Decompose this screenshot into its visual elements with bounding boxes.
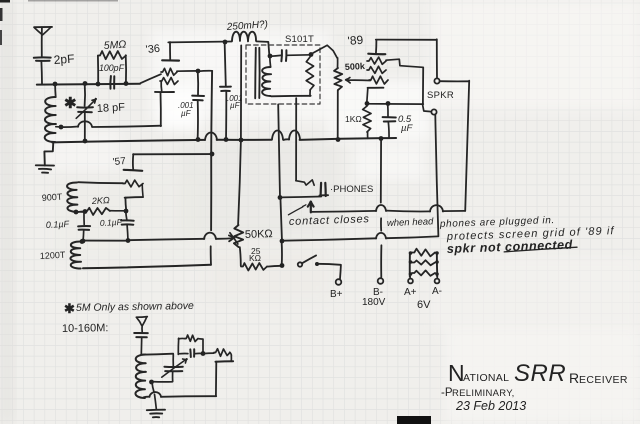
svg-text:·PHONES: ·PHONES (330, 184, 373, 195)
svg-text:10-160M:: 10-160M: (62, 322, 109, 335)
svg-text:100pF: 100pF (99, 63, 125, 73)
svg-text:6V: 6V (417, 299, 431, 311)
svg-text:'36: '36 (145, 43, 160, 56)
svg-text:A+: A+ (404, 287, 417, 298)
svg-text:µF: µF (181, 109, 192, 118)
svg-text:R: R (569, 370, 579, 386)
svg-text:SPKR: SPKR (427, 90, 454, 101)
svg-text:when head: when head (387, 216, 435, 229)
svg-text:B+: B+ (330, 289, 343, 300)
svg-text:18 pF: 18 pF (97, 102, 126, 115)
svg-text:µF: µF (230, 101, 241, 110)
svg-text:2KΩ: 2KΩ (91, 195, 111, 206)
svg-text:ATIONAL: ATIONAL (463, 372, 509, 384)
svg-text:0.1µF: 0.1µF (46, 219, 70, 230)
svg-text:µF: µF (401, 123, 413, 134)
svg-text:S101T: S101T (285, 34, 314, 45)
svg-text:2pF: 2pF (53, 52, 75, 67)
svg-text:KΩ: KΩ (249, 253, 261, 263)
svg-text:1200T: 1200T (40, 250, 67, 261)
svg-text:'57: '57 (112, 156, 126, 168)
svg-text:1KΩ: 1KΩ (345, 114, 362, 124)
svg-text:SRR: SRR (514, 360, 566, 387)
svg-text:ECEIVER: ECEIVER (579, 374, 628, 386)
svg-text:✱: ✱ (64, 95, 77, 112)
svg-text:50KΩ: 50KΩ (245, 228, 273, 241)
svg-text:'89: '89 (347, 33, 364, 48)
svg-text:RELIMINARY,: RELIMINARY, (452, 388, 515, 399)
svg-text:900T: 900T (41, 192, 63, 203)
svg-text:180V: 180V (362, 297, 386, 308)
svg-text:500k: 500k (345, 61, 367, 72)
svg-text:0.1µF: 0.1µF (100, 217, 123, 228)
svg-text:23 Feb 2013: 23 Feb 2013 (455, 399, 526, 413)
svg-text:✱: ✱ (64, 301, 75, 316)
svg-text:5MΩ: 5MΩ (103, 38, 126, 52)
svg-text:5M Only as shown above: 5M Only as shown above (76, 300, 194, 314)
svg-text:A-: A- (432, 286, 442, 297)
